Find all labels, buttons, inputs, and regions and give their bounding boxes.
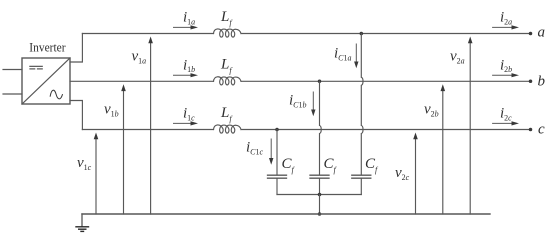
svg-text:v2c: v2c bbox=[395, 165, 410, 182]
wire inverter output to phase a bbox=[70, 34, 82, 63]
svg-text:iC1a: iC1a bbox=[334, 46, 352, 63]
wire C2 bottom lead bbox=[319, 178, 321, 194]
measurement arrow v2a bbox=[468, 37, 473, 215]
svg-text:Inverter: Inverter bbox=[29, 41, 66, 55]
svg-text:i1c: i1c bbox=[183, 106, 195, 123]
measurement arrow v1c bbox=[94, 133, 99, 215]
svg-text:i1a: i1a bbox=[183, 10, 195, 27]
node junction dot capacitor bus bbox=[318, 193, 322, 197]
current arrow iC1c bbox=[269, 139, 273, 165]
inductor Lf phase a bbox=[214, 29, 242, 37]
inverter U1 diagonal bbox=[22, 58, 70, 104]
wire C1 tap vertical bbox=[276, 130, 278, 175]
wire phase c line left segment bbox=[82, 129, 213, 131]
wire DC input - bbox=[3, 93, 22, 95]
svg-text:Lf: Lf bbox=[220, 105, 233, 124]
current arrow i2b bbox=[493, 73, 519, 77]
node junction dot ground bus bbox=[318, 212, 322, 216]
svg-text:Lf: Lf bbox=[220, 9, 233, 28]
svg-text:i2c: i2c bbox=[500, 106, 512, 123]
svg-text:i1b: i1b bbox=[183, 57, 195, 74]
capacitor C2 (Cf) plates bbox=[310, 175, 329, 178]
svg-text:v1c: v1c bbox=[77, 155, 92, 172]
wire neutral drop to ground bus bbox=[319, 195, 321, 215]
wire capacitor common bus bbox=[277, 194, 361, 196]
wire inverter output to phase b bbox=[70, 80, 214, 82]
wire inverter output to phase c bbox=[70, 101, 82, 130]
wire phase a line left segment bbox=[82, 33, 213, 35]
ground symbol bbox=[76, 227, 89, 232]
wire phase b line right segment bbox=[241, 80, 530, 82]
svg-text:a: a bbox=[538, 25, 546, 41]
current arrow i1a bbox=[174, 25, 199, 29]
svg-text:b: b bbox=[538, 74, 546, 90]
measurement arrow v1b bbox=[121, 84, 126, 214]
measurement arrow v2b bbox=[441, 84, 446, 214]
node junction dot phase b to C2 tap bbox=[318, 80, 322, 84]
capacitor C3 (Cf) plates bbox=[352, 175, 371, 178]
wire C1 bottom lead bbox=[276, 178, 278, 194]
svg-text:Cf: Cf bbox=[365, 156, 379, 175]
current arrow i2c bbox=[493, 121, 519, 125]
svg-text:iC1b: iC1b bbox=[289, 93, 307, 110]
node junction dot phase c to C1 tap bbox=[275, 128, 279, 132]
node phase a terminal dot bbox=[529, 32, 533, 36]
wire C3 bottom lead bbox=[360, 178, 362, 194]
wire C3 tap vertical with hops over b and c bbox=[361, 34, 363, 175]
inverter U1 box bbox=[22, 58, 70, 104]
svg-text:i2a: i2a bbox=[500, 10, 512, 27]
svg-text:Lf: Lf bbox=[220, 57, 233, 76]
svg-text:v1b: v1b bbox=[104, 102, 119, 119]
wire DC input + bbox=[3, 69, 22, 71]
measurement arrow v1a bbox=[148, 37, 153, 215]
svg-text:v2a: v2a bbox=[450, 49, 465, 66]
measurement arrow v2c bbox=[413, 133, 418, 215]
node junction dot phase a to C3 tap bbox=[360, 32, 364, 36]
current arrow iC1b bbox=[311, 92, 315, 116]
wire ground bus bbox=[82, 213, 490, 215]
inductor Lf phase c bbox=[214, 125, 242, 133]
wire ground stem bbox=[81, 214, 83, 227]
svg-text:v1a: v1a bbox=[132, 49, 147, 66]
node phase b terminal dot bbox=[529, 80, 533, 84]
svg-text:v2b: v2b bbox=[424, 102, 439, 119]
svg-text:iC1c: iC1c bbox=[246, 140, 264, 157]
wire C2 tap vertical with hop over c bbox=[320, 81, 322, 175]
current arrow i1b bbox=[174, 73, 199, 77]
current arrow i2a bbox=[493, 25, 519, 29]
inverter U1 AC symbol (~) bbox=[50, 90, 62, 99]
svg-text:c: c bbox=[538, 122, 545, 138]
wire phase a line right segment bbox=[241, 33, 530, 35]
current arrow i1c bbox=[174, 121, 199, 125]
svg-text:Cf: Cf bbox=[324, 156, 338, 175]
capacitor C1 (Cf) plates bbox=[268, 175, 287, 178]
inductor Lf phase b bbox=[214, 77, 242, 85]
svg-text:Cf: Cf bbox=[282, 156, 296, 175]
inverter U1 DC symbol (=) bbox=[30, 66, 43, 69]
node phase c terminal dot bbox=[529, 128, 533, 132]
current arrow iC1a bbox=[354, 44, 358, 68]
wire phase c line right segment bbox=[241, 129, 530, 131]
svg-text:i2b: i2b bbox=[500, 57, 512, 74]
